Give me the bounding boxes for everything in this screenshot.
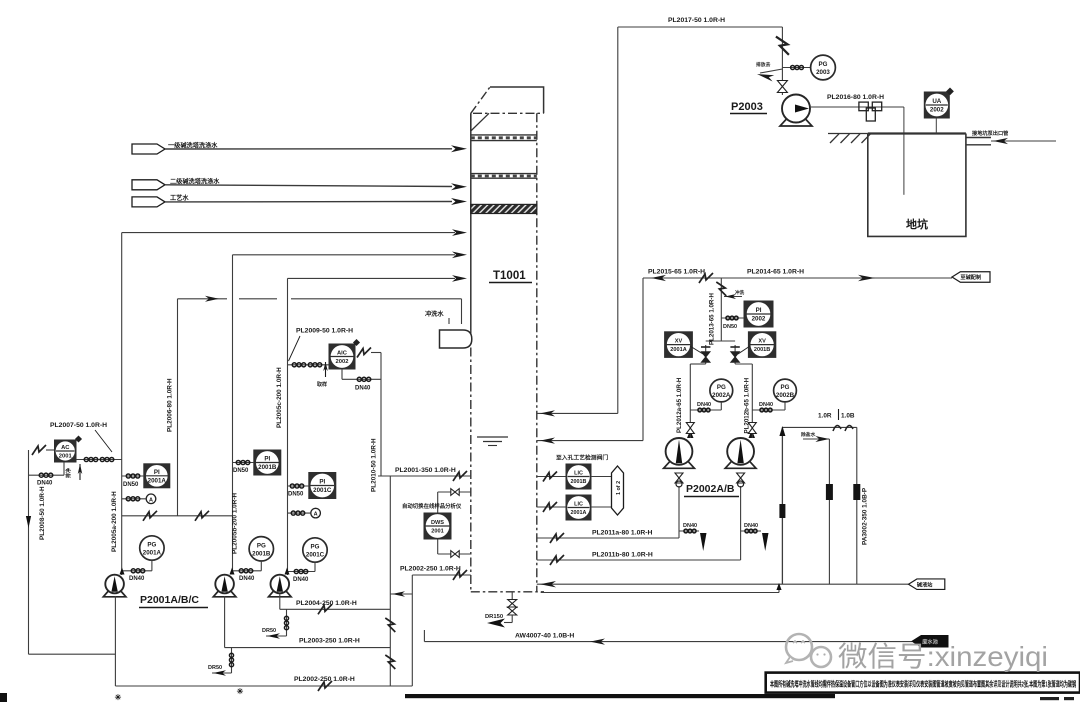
svg-text:PL2002-250 1.0R-H: PL2002-250 1.0R-H bbox=[400, 566, 461, 573]
gauge PG2001C bbox=[303, 538, 327, 562]
check valve B bbox=[748, 423, 756, 429]
wire LIC to selector bbox=[591, 476, 612, 478]
notes bar bbox=[766, 673, 1080, 693]
svg-text:PL2008-50 1.0R-H: PL2008-50 1.0R-H bbox=[39, 486, 46, 540]
svg-text:1 of 2: 1 of 2 bbox=[616, 481, 622, 495]
instrument PI2001C bbox=[309, 473, 336, 499]
svg-text:PI: PI bbox=[264, 456, 270, 463]
wire dip tube into pit bbox=[903, 107, 905, 195]
wire PL2015/PL2014 header bbox=[643, 277, 952, 279]
flush stub arrow bbox=[724, 296, 742, 298]
instrument LIC2001B bbox=[566, 464, 591, 489]
column packing bed 1 bbox=[471, 134, 537, 136]
gauge PG2001B bbox=[249, 537, 273, 561]
svg-text:PL2009-50 1.0R-H: PL2009-50 1.0R-H bbox=[296, 328, 353, 335]
wire feed 2 to column bbox=[165, 185, 452, 187]
svg-text:DN50: DN50 bbox=[288, 492, 304, 498]
flush collector pot bbox=[440, 330, 472, 348]
svg-text:P2002A/B: P2002A/B bbox=[686, 483, 735, 495]
svg-text:2001A: 2001A bbox=[571, 510, 587, 516]
svg-text:微信号:xinzeyiqi: 微信号:xinzeyiqi bbox=[838, 641, 1048, 672]
wire PL2011a bbox=[537, 537, 679, 539]
zigzag balance 2 bbox=[195, 511, 209, 521]
svg-text:2001B: 2001B bbox=[754, 347, 770, 353]
zigzag PL2013 bbox=[716, 282, 726, 296]
wire branch y594 bbox=[390, 593, 412, 595]
wire PG2002B stub bbox=[784, 402, 786, 410]
drain DN40 pump A bbox=[679, 530, 699, 532]
instrument PI2002 bbox=[744, 301, 773, 327]
source flag feed 2 bbox=[132, 180, 165, 190]
column hatched tray band bbox=[471, 204, 537, 213]
tag AIC2002 bbox=[353, 339, 360, 346]
svg-text:PL2011b-80 1.0R-H: PL2011b-80 1.0R-H bbox=[592, 552, 653, 559]
svg-text:PI: PI bbox=[756, 307, 762, 314]
instrument XV2001A bbox=[665, 332, 693, 358]
svg-text:2002: 2002 bbox=[752, 316, 766, 323]
wire feed 3 to column bbox=[165, 201, 452, 203]
valve DR150 double bbox=[508, 600, 517, 604]
instrument LIC2001A bbox=[566, 495, 591, 520]
gauge PG2001A bbox=[140, 536, 164, 560]
wire PI2002 stub bbox=[721, 317, 744, 319]
wire UA2002 stem bbox=[935, 118, 937, 134]
wire PI2001C stub bbox=[288, 485, 309, 487]
svg-text:T1001: T1001 bbox=[493, 270, 526, 282]
svg-text:PL2010-50 1.0R-H: PL2010-50 1.0R-H bbox=[371, 438, 378, 492]
svg-text:PG: PG bbox=[311, 544, 320, 551]
selector flag 1 of 2 bbox=[612, 466, 624, 515]
wire PL2002 column outlet bbox=[412, 574, 471, 576]
svg-text:DN40: DN40 bbox=[239, 576, 255, 582]
svg-text:冲洗: 冲洗 bbox=[735, 289, 745, 296]
svg-text:PL2014-65 1.0R-H: PL2014-65 1.0R-H bbox=[747, 269, 804, 276]
pump P2002B suction bbox=[740, 486, 742, 560]
vent arrow 排放 bbox=[760, 69, 782, 73]
svg-text:2002: 2002 bbox=[336, 359, 349, 365]
wire PL2001-350 bbox=[378, 475, 471, 477]
column T1001 shell bbox=[470, 113, 472, 330]
wire PI2001B stub bbox=[233, 462, 254, 464]
pump P2002B bbox=[725, 458, 756, 468]
inline fitting PA3002 bbox=[853, 484, 860, 500]
svg-text:PL2016-80 1.0R-H: PL2016-80 1.0R-H bbox=[827, 94, 884, 101]
pump P2002A suction bbox=[678, 486, 680, 538]
gauge PG2003 bbox=[811, 55, 836, 80]
wire PL2017 top run bbox=[618, 26, 783, 28]
instrument AIC2002 bbox=[329, 344, 355, 369]
svg-text:DN40: DN40 bbox=[744, 523, 758, 529]
wire balance line y515 bbox=[122, 515, 233, 517]
svg-text:至入孔工艺检测阀门: 至入孔工艺检测阀门 bbox=[556, 454, 608, 462]
svg-text:AIC: AIC bbox=[337, 351, 348, 357]
spec break 1.0R/1.0B bbox=[833, 425, 841, 431]
arrow PL2014 bbox=[858, 275, 875, 282]
wire y584 into column bbox=[537, 583, 857, 585]
svg-text:PL2003-250 1.0R-H: PL2003-250 1.0R-H bbox=[299, 638, 360, 645]
tag UA2002 bbox=[946, 87, 954, 95]
svg-text:DN40: DN40 bbox=[697, 402, 711, 408]
wire DR150 stub bbox=[511, 592, 513, 600]
drain DN40 pump B bbox=[741, 530, 761, 532]
wire AIC2001 analyzer line to riser A bbox=[76, 459, 122, 461]
wire PI2001A stub bbox=[122, 475, 144, 477]
svg-text:2001C: 2001C bbox=[313, 487, 332, 494]
svg-text:XV: XV bbox=[758, 339, 766, 345]
gauge PG2003 branch bbox=[782, 67, 810, 69]
wire PG2002A stub bbox=[720, 402, 722, 410]
bottom left corner mark bbox=[0, 693, 7, 702]
svg-text:2001B: 2001B bbox=[571, 479, 587, 485]
wire pit inlet bbox=[991, 140, 1056, 142]
analysis point A riser C bbox=[311, 508, 321, 518]
wire flush water drop to collector bbox=[461, 299, 463, 324]
liquid level mark bbox=[477, 436, 508, 438]
wire feed 1 to column bbox=[165, 148, 452, 150]
svg-text:排放去: 排放去 bbox=[756, 61, 771, 68]
zigzag relief bbox=[776, 37, 789, 55]
svg-text:PG: PG bbox=[257, 542, 266, 549]
svg-text:DN40: DN40 bbox=[129, 576, 145, 582]
arrow PL2015 bbox=[651, 275, 666, 281]
wire PL2008 vertical bbox=[28, 450, 30, 654]
inline fitting middle bbox=[826, 484, 833, 500]
wire line 2 into column bbox=[233, 254, 456, 256]
svg-text:DR50: DR50 bbox=[208, 665, 222, 671]
pennant 去碱液站 bbox=[952, 272, 990, 283]
wire PL2010 vertical bbox=[380, 353, 382, 477]
svg-text:接地坑泵出口管: 接地坑泵出口管 bbox=[972, 129, 1008, 137]
wire AIC2002 bottom stub bbox=[341, 369, 343, 379]
source flag feed 3 process water bbox=[132, 197, 165, 207]
instrument PI2001B bbox=[254, 450, 281, 475]
wire AIC2001 bottom to PL2008 bbox=[63, 462, 65, 475]
wire PL2015 drop to column bbox=[642, 278, 644, 441]
wire DWS upper tap bbox=[438, 491, 471, 493]
instrument PI2001A bbox=[144, 464, 170, 488]
zigzag PL2002 outlet bbox=[453, 570, 467, 580]
svg-text:PL2012b-65 1.0R-H: PL2012b-65 1.0R-H bbox=[744, 377, 751, 433]
valve glands DN40 on PL2008 bbox=[39, 473, 53, 477]
wire PL2017 riser bbox=[617, 27, 619, 413]
actuated valve B bbox=[731, 352, 739, 357]
tag AIC2001 bbox=[75, 435, 82, 442]
svg-text:2002A: 2002A bbox=[712, 392, 731, 399]
instrument AIC2001 bbox=[55, 440, 77, 462]
wire PL2011b bbox=[537, 559, 741, 561]
zigzag PL2002 bottom bbox=[318, 681, 332, 691]
svg-text:1.0R: 1.0R bbox=[818, 413, 832, 420]
wire PG2001C stub bbox=[314, 562, 316, 571]
instrument UA2002 bbox=[924, 92, 949, 118]
wire PL2004-250 bbox=[279, 594, 281, 609]
gauge PG2002A bbox=[710, 379, 733, 402]
drain arrow DR150 bbox=[487, 619, 505, 628]
svg-text:PL2017-50 1.0R-H: PL2017-50 1.0R-H bbox=[668, 17, 725, 24]
wire AW4007 bbox=[424, 641, 912, 643]
actuated valve A bbox=[702, 352, 710, 357]
pennant AW black bbox=[912, 636, 948, 648]
svg-text:PG: PG bbox=[781, 384, 790, 391]
leader PL2009 bbox=[289, 336, 301, 361]
wire PL2006 riser bbox=[177, 299, 179, 516]
pump P2002A bbox=[664, 458, 695, 468]
svg-text:✳: ✳ bbox=[237, 687, 244, 696]
vent arrow 排净 bbox=[78, 464, 83, 474]
svg-text:2002: 2002 bbox=[930, 107, 944, 114]
svg-text:PG: PG bbox=[717, 384, 726, 391]
wire DWS lower tap bbox=[438, 553, 471, 555]
zigzag on AIC2001 signal bbox=[32, 445, 46, 455]
svg-text:PL2015-65 1.0R-H: PL2015-65 1.0R-H bbox=[648, 269, 705, 276]
wire LIC2001A tap bbox=[537, 506, 566, 508]
instrument DWS2001 bbox=[424, 513, 451, 539]
wire DWS loop left bbox=[437, 492, 439, 513]
source flag feed 1 bbox=[132, 144, 165, 154]
valve glands pair bbox=[84, 457, 98, 461]
wire line 3 into column bbox=[288, 277, 456, 279]
demin water stub bbox=[803, 438, 829, 440]
zigzag PL2001 bbox=[453, 471, 467, 481]
svg-text:PL2002-250 1.0R-H: PL2002-250 1.0R-H bbox=[294, 676, 355, 683]
svg-text:DN50: DN50 bbox=[123, 482, 139, 488]
bottom right marks bbox=[1040, 697, 1059, 700]
svg-text:2001A: 2001A bbox=[670, 347, 686, 353]
svg-text:DN40: DN40 bbox=[37, 481, 53, 487]
svg-text:2001: 2001 bbox=[59, 454, 73, 460]
column packing bed 2 bbox=[471, 173, 537, 175]
svg-text:DN40: DN40 bbox=[683, 523, 697, 529]
svg-text:PA3002-350 1.0B-P: PA3002-350 1.0B-P bbox=[862, 487, 869, 545]
wire line 1 into column bbox=[122, 232, 455, 234]
svg-text:DN40: DN40 bbox=[293, 577, 309, 583]
wire y592 return bbox=[541, 592, 779, 594]
svg-text:2001C: 2001C bbox=[306, 552, 325, 559]
wire PL2001 drop bbox=[389, 476, 391, 686]
svg-text:冲洗水: 冲洗水 bbox=[425, 310, 444, 318]
pit inlet nozzle bbox=[966, 137, 991, 139]
svg-text:DN50: DN50 bbox=[233, 468, 249, 474]
pump P2003 bbox=[780, 116, 812, 127]
svg-text:LIC: LIC bbox=[574, 502, 583, 508]
svg-text:XV: XV bbox=[675, 339, 683, 345]
svg-text:2003: 2003 bbox=[816, 69, 830, 76]
svg-text:✳: ✳ bbox=[115, 693, 122, 702]
wire PG2001A stub bbox=[151, 560, 153, 571]
wire XV header bbox=[706, 340, 735, 342]
wire PL2016 suction bbox=[810, 106, 904, 108]
wire PL2002 drop bbox=[411, 575, 413, 686]
svg-text:A: A bbox=[314, 512, 318, 518]
zigzag AIC2002 right bbox=[357, 348, 371, 358]
svg-text:PL2005c-200 1.0R-H: PL2005c-200 1.0R-H bbox=[276, 367, 283, 428]
wire PL2002-250 bottom bbox=[114, 596, 116, 686]
svg-text:DN40: DN40 bbox=[355, 386, 371, 392]
svg-text:PL2005a-200 1.0R-H: PL2005a-200 1.0R-H bbox=[111, 491, 118, 552]
grade hatching bbox=[830, 134, 839, 143]
zigzag drop 2 bbox=[385, 655, 395, 669]
svg-text:DN40: DN40 bbox=[759, 402, 773, 408]
column T1001 top duct bbox=[470, 113, 472, 131]
wire PL2017 into column bbox=[537, 412, 618, 414]
valve above P2003 bbox=[777, 81, 787, 87]
wire PL2005c riser pump C discharge bbox=[287, 278, 289, 575]
sample arrow bbox=[323, 362, 328, 371]
svg-text:DWS: DWS bbox=[431, 520, 444, 526]
wire AW4007 stub up bbox=[423, 630, 425, 642]
drain valve DR50 on PL2004 bbox=[286, 609, 288, 636]
svg-text:本图所有碱洗塔冲洗水管线均需伴热保温设备管口方位以设备图为准: 本图所有碱洗塔冲洗水管线均需伴热保温设备管口方位以设备图为准仪表安装详见仪表安装… bbox=[770, 680, 1076, 689]
signal XV2001B bbox=[738, 346, 750, 354]
leader PL2007 bbox=[95, 430, 112, 452]
pump P2001C bbox=[269, 589, 292, 597]
svg-text:取样: 取样 bbox=[317, 381, 327, 388]
wire PL2005a riser pump A discharge bbox=[121, 233, 123, 575]
wire PL2008 bottom run bbox=[29, 653, 116, 655]
svg-text:排净: 排净 bbox=[65, 468, 72, 478]
svg-text:PL2011a-80 1.0R-H: PL2011a-80 1.0R-H bbox=[592, 530, 653, 537]
svg-text:PL2007-50 1.0R-H: PL2007-50 1.0R-H bbox=[50, 422, 107, 429]
svg-text:PL2006-80 1.0R-H: PL2006-80 1.0R-H bbox=[167, 378, 174, 432]
svg-text:2001B: 2001B bbox=[258, 464, 277, 471]
pump P2001B bbox=[213, 589, 236, 597]
drain valve DR50 on PL2003 bbox=[231, 648, 233, 673]
svg-text:DR150: DR150 bbox=[485, 614, 503, 620]
svg-text:PI: PI bbox=[154, 469, 160, 476]
title block top line bbox=[405, 694, 835, 698]
zigzag balance 1 bbox=[143, 511, 157, 521]
svg-text:2001A: 2001A bbox=[143, 550, 162, 557]
collector feed arrows bbox=[448, 318, 450, 324]
wire middle drop bbox=[828, 439, 830, 584]
svg-text:PG: PG bbox=[147, 542, 156, 549]
wire P2002B discharge bbox=[751, 364, 753, 438]
wire PG2001B stub bbox=[260, 561, 262, 571]
svg-text:至碱配制: 至碱配制 bbox=[960, 273, 981, 281]
wire LIC2001B tap bbox=[537, 476, 566, 478]
svg-text:AW4007-40 1.0B-H: AW4007-40 1.0B-H bbox=[515, 633, 574, 640]
zigzag PL2015 bbox=[699, 273, 713, 283]
svg-text:PL2013-65 1.0R-H: PL2013-65 1.0R-H bbox=[709, 293, 716, 345]
svg-text:2001: 2001 bbox=[431, 529, 443, 535]
wire PL2003-250 bbox=[224, 596, 226, 648]
svg-text:PL2004-250 1.0R-H: PL2004-250 1.0R-H bbox=[296, 600, 357, 607]
pennant 碱液站 bbox=[909, 579, 945, 590]
zigzag PL2004 bbox=[318, 604, 332, 614]
svg-text:PL2012a-65 1.0R-H: PL2012a-65 1.0R-H bbox=[676, 377, 683, 433]
instrument XV2001B bbox=[748, 332, 775, 358]
svg-text:PL2005b-200 1.0R-H: PL2005b-200 1.0R-H bbox=[232, 493, 239, 554]
svg-text:2001B: 2001B bbox=[252, 550, 271, 557]
suction flange fitting bbox=[859, 102, 868, 111]
glands AIC2002 tap bbox=[292, 363, 306, 367]
svg-text:2002B: 2002B bbox=[776, 392, 795, 399]
wire manifold B bbox=[735, 363, 752, 365]
flow arrow down on PL2008 bbox=[26, 516, 31, 528]
wire P2002A discharge bbox=[689, 364, 691, 438]
svg-text:2001A: 2001A bbox=[148, 477, 167, 484]
svg-text:PL2001-350 1.0R-H: PL2001-350 1.0R-H bbox=[395, 467, 456, 474]
wire DR150 elbow bbox=[511, 615, 513, 623]
wire caustic drop into column bbox=[781, 427, 783, 584]
check valve A bbox=[686, 423, 694, 429]
wire PA3002 drop bbox=[856, 427, 858, 584]
wire manifold A bbox=[690, 363, 705, 365]
svg-text:地坑: 地坑 bbox=[906, 217, 928, 231]
svg-text:LIC: LIC bbox=[574, 471, 583, 477]
pit vessel 地坑 bbox=[868, 134, 966, 237]
svg-text:PI: PI bbox=[319, 479, 325, 486]
svg-text:AC: AC bbox=[61, 445, 70, 451]
pump P2001A bbox=[103, 589, 126, 597]
svg-text:DR50: DR50 bbox=[262, 628, 276, 634]
gauge PG2002B bbox=[774, 379, 797, 402]
svg-text:1.0B: 1.0B bbox=[841, 413, 855, 420]
wire PL2005b riser pump B discharge bbox=[232, 255, 234, 574]
svg-text:工艺水: 工艺水 bbox=[170, 194, 189, 202]
watermark wechat logo bbox=[786, 634, 831, 667]
svg-text:P2003: P2003 bbox=[731, 101, 763, 113]
wire P2003 discharge vertical bbox=[781, 27, 783, 95]
svg-text:P2001A/B/C: P2001A/B/C bbox=[140, 594, 199, 606]
zigzag drop 1 bbox=[385, 618, 395, 632]
svg-text:PG: PG bbox=[819, 61, 828, 68]
analysis point A riser A bbox=[146, 494, 156, 504]
svg-text:除盐水: 除盐水 bbox=[801, 431, 816, 438]
svg-text:A: A bbox=[149, 497, 153, 503]
svg-text:碱液站: 碱液站 bbox=[917, 580, 933, 588]
svg-text:自动切换在线样品分析仪: 自动切换在线样品分析仪 bbox=[402, 502, 462, 510]
wire flush water header bbox=[178, 298, 228, 300]
wire caustic header y427 bbox=[782, 426, 856, 428]
wire AIC2002 tap bbox=[288, 364, 330, 366]
signal XV2001A bbox=[690, 346, 703, 354]
svg-text:DN50: DN50 bbox=[723, 324, 737, 330]
inline fitting left drop bbox=[779, 504, 785, 518]
svg-text:UA: UA bbox=[932, 98, 941, 105]
pump P2001A discharge arrow bbox=[120, 568, 125, 575]
